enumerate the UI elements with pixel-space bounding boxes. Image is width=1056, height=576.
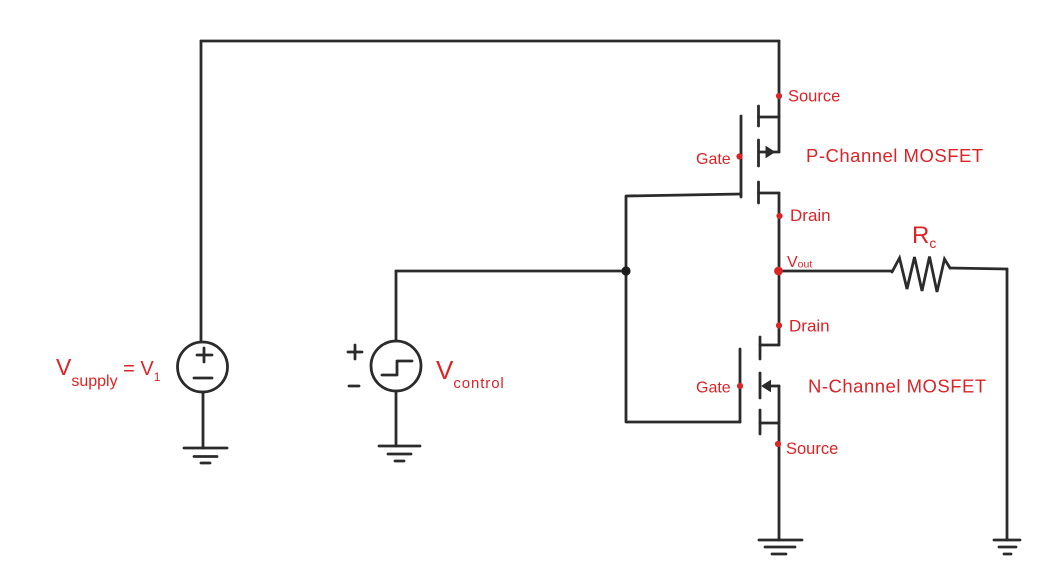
wire junction up to PMOS gate (626, 194, 741, 271)
wire NMOS drain to Vout (778, 271, 781, 345)
svg-text:Source: Source (788, 88, 840, 106)
wire resistor to right branch (950, 268, 1007, 269)
node Vout dot (774, 267, 783, 276)
node Gate (PMOS) dot (736, 153, 742, 159)
wire V_control top lead (395, 271, 398, 341)
resistor R_C (892, 257, 950, 293)
transistor Q2 N-channel MOSFET (740, 337, 779, 434)
ground (right branch) (994, 540, 1020, 554)
wire top rail (201, 40, 779, 43)
svg-text:N-Channel MOSFET: N-Channel MOSFET (808, 376, 987, 397)
node Source (PMOS) dot (776, 93, 782, 99)
wire NMOS source to ground (778, 386, 781, 540)
wire V_control to ground (395, 391, 398, 446)
svg-text:Vsupply = V1: Vsupply = V1 (56, 354, 161, 390)
wire PMOS drain to Vout (778, 193, 781, 271)
ground (V_supply) (184, 448, 227, 463)
wire junction down to NMOS gate (626, 271, 740, 422)
transistor Q1 P-channel MOSFET (741, 106, 779, 203)
svg-text:Source: Source (786, 440, 838, 458)
wire V_control to junction (396, 270, 626, 273)
ground (NMOS source) (759, 540, 802, 554)
wire right branch down (1006, 269, 1009, 540)
svg-text:Rc: Rc (912, 222, 936, 251)
wire V_supply to ground (202, 392, 205, 448)
wire Vout to resistor (779, 270, 892, 273)
svg-text:Drain: Drain (789, 317, 830, 336)
svg-text:P-Channel MOSFET: P-Channel MOSFET (806, 145, 984, 166)
node Drain (NMOS) dot (776, 322, 782, 328)
node Gate (NMOS) dot (737, 383, 743, 389)
svg-text:Gate: Gate (696, 380, 731, 397)
svg-text:Gate: Gate (696, 151, 731, 168)
voltage source V_control (371, 341, 421, 391)
node Drain (PMOS) dot (776, 213, 782, 219)
voltage source V_supply (178, 342, 228, 392)
svg-text:Drain: Drain (790, 206, 831, 225)
wire PMOS source lead (778, 41, 781, 152)
wire left vertical to V_supply (200, 41, 203, 342)
svg-text:Vout: Vout (787, 254, 812, 271)
node Source (NMOS) dot (775, 441, 781, 447)
ground (V_control) (379, 446, 420, 461)
node junction dot (621, 266, 630, 275)
svg-text:Vcontrol: Vcontrol (436, 355, 505, 392)
